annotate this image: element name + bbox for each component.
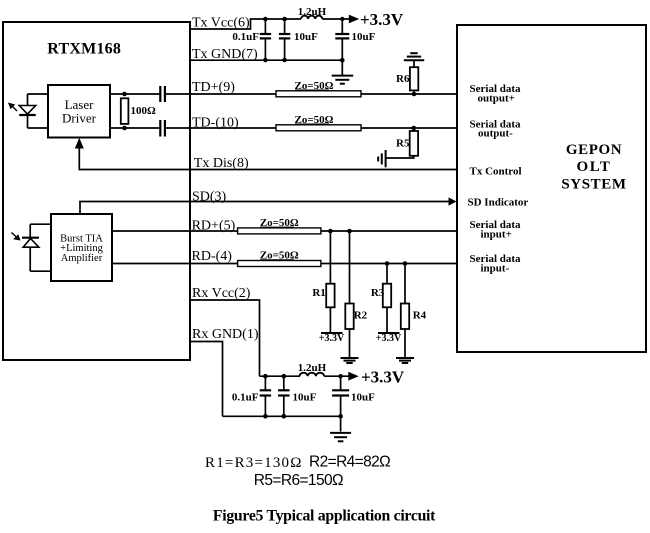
wire Tx Dis [79, 146, 457, 170]
arrow +3.3V top [349, 15, 359, 24]
label GEPON OLT SYSTEM [561, 142, 626, 193]
svg-text:input-: input- [481, 263, 510, 275]
svg-text:0.1uF: 0.1uF [232, 31, 259, 43]
transmission line Zo=50 RD- [238, 261, 321, 267]
transmission line Zo=50 TD- [276, 125, 361, 131]
label 10uF C6 [351, 392, 375, 404]
label R5 [396, 138, 410, 150]
svg-text:SYSTEM: SYSTEM [561, 177, 626, 193]
svg-text:Figure5 Typical application ci: Figure5 Typical application circuit [213, 508, 436, 525]
pin Rx GND(1) [192, 327, 259, 342]
pin Tx Dis(8) [194, 156, 249, 171]
capacitor C4 0.1uF [260, 374, 271, 419]
caption Figure5 [213, 508, 436, 525]
wire to +3.3V node bottom [324, 374, 349, 378]
pin Tx GND(7) [192, 47, 258, 62]
svg-text:Driver: Driver [62, 111, 97, 126]
photodiode D2 symbol [22, 238, 39, 248]
label 1.2uH bottom [298, 362, 327, 374]
svg-text:10uF: 10uF [294, 31, 318, 43]
block U2 Laser Driver [48, 85, 110, 138]
label Zo=50 TD+ [295, 80, 334, 92]
svg-text:10uF: 10uF [351, 392, 375, 404]
svg-text:OLT: OLT [576, 159, 611, 175]
label RTXM168 [47, 41, 121, 58]
wire TD+ from laser driver [110, 93, 160, 95]
svg-text:0.1uF: 0.1uF [232, 392, 259, 404]
wire RD- to GEPON [321, 261, 457, 266]
svg-text:RTXM168: RTXM168 [47, 41, 121, 58]
ground above R6 (flipped) [404, 53, 424, 60]
svg-text:R1=R3=130Ω: R1=R3=130Ω [205, 455, 303, 471]
label TD-(10) [192, 116, 239, 131]
wire RD- from TIA [112, 263, 238, 265]
wire Tx GND [190, 59, 342, 61]
wire bottom filter top rail [260, 375, 301, 377]
ground G2 bottom filter [330, 433, 351, 441]
label R2 [354, 310, 368, 322]
resistor R4 [401, 264, 409, 358]
pin RD-(4) [192, 249, 233, 264]
capacitor C1 0.1uF [260, 17, 271, 63]
svg-text:R3: R3 [371, 287, 385, 299]
resistor R5 [386, 128, 418, 158]
label TD+(9) [192, 80, 235, 95]
svg-text:R6: R6 [396, 73, 410, 85]
light arrow at D2 [12, 233, 21, 241]
svg-text:+3.3V: +3.3V [319, 333, 345, 344]
svg-text:Amplifier: Amplifier [61, 253, 103, 264]
label R1 [312, 287, 325, 299]
label +3.3V bottom [361, 368, 405, 387]
resistor R3 [378, 264, 400, 334]
pin RD+(5) [192, 218, 236, 233]
IC U1 RTXM168 box [3, 22, 190, 360]
GEPON pin label serial data output- [470, 118, 522, 139]
label 100ohm [131, 105, 157, 117]
capacitor series C_td- [160, 120, 165, 137]
photodiode D1 (laser) wiring [28, 94, 49, 128]
resistor R6 [410, 61, 418, 95]
GEPON pin label serial data input- [470, 253, 522, 275]
transmission line Zo=50 RD+ [238, 228, 321, 234]
wire TD- from laser driver [110, 127, 160, 129]
svg-text:R1: R1 [312, 287, 325, 299]
wire RD+ from TIA [112, 230, 238, 232]
svg-text:R2=R4=82Ω: R2=R4=82Ω [309, 454, 390, 471]
svg-text:R5: R5 [396, 138, 410, 150]
formula line 2 [254, 472, 343, 489]
resistor R1 [321, 231, 343, 333]
svg-text:Rx GND(1): Rx GND(1) [192, 327, 259, 342]
ground at R4 [396, 358, 414, 363]
formula line 1 [205, 454, 390, 472]
wire TD- to GEPON [361, 126, 457, 131]
light arrow at D1 [8, 103, 17, 112]
wire Rx Vcc [190, 300, 260, 376]
label 10uF C5 [293, 392, 317, 404]
label 10uF C2 [294, 31, 318, 43]
label +3.3V at R3 [376, 333, 402, 344]
svg-text:1.2uH: 1.2uH [298, 362, 327, 374]
pin Rx Vcc(2) [192, 286, 251, 301]
GEPON pin label serial data input+ [470, 219, 522, 241]
label 10uF C3 [352, 31, 376, 43]
label 1.2uH top [298, 6, 327, 18]
capacitor C5 10uF [278, 374, 289, 419]
label Zo=50 RD+ [260, 217, 299, 229]
arrow SD indicator [449, 197, 457, 205]
svg-text:+3.3V: +3.3V [376, 333, 402, 344]
svg-text:100Ω: 100Ω [131, 105, 157, 117]
block U4 Burst TIA + Limiting Amplifier [51, 214, 112, 281]
svg-text:output-: output- [478, 127, 513, 139]
IC U3 GEPON OLT SYSTEM box [457, 25, 646, 352]
wire RD+ to GEPON [321, 229, 457, 234]
svg-text:R2: R2 [354, 310, 368, 322]
svg-text:R4: R4 [413, 310, 427, 322]
capacitor C2 10uF [279, 17, 290, 63]
arrow into laser driver [75, 138, 84, 149]
ground G1 top filter [332, 76, 354, 84]
label +3.3V at R1 [319, 333, 345, 344]
svg-text:RD-(4): RD-(4) [192, 249, 233, 264]
photodiode D1 symbol [19, 106, 36, 116]
transmission line Zo=50 TD+ [276, 91, 361, 97]
inductor L1 1.2uH [301, 16, 322, 19]
svg-text:SD Indicator: SD Indicator [468, 197, 529, 209]
svg-text:TD-(10): TD-(10) [192, 116, 239, 131]
label 0.1uF bottom [232, 392, 259, 404]
svg-text:10uF: 10uF [352, 31, 376, 43]
capacitor series C_td+ [160, 86, 165, 102]
pin Tx Vcc(6) [192, 16, 250, 31]
svg-text:Tx Control: Tx Control [470, 166, 522, 178]
svg-text:TD+(9): TD+(9) [192, 80, 235, 95]
wire TD+ to GEPON [361, 92, 457, 97]
wire TD+ to Zo block [166, 93, 276, 95]
capacitor C3 10uF [335, 19, 349, 75]
wire to +3.3V node [322, 17, 350, 21]
inductor L2 1.2uH [300, 373, 325, 376]
label Zo=50 RD- [260, 249, 299, 261]
svg-text:input+: input+ [481, 229, 512, 241]
svg-text:Rx Vcc(2): Rx Vcc(2) [192, 286, 251, 301]
svg-text:GEPON: GEPON [566, 142, 622, 158]
label R3 [371, 287, 385, 299]
ground at R2 [341, 358, 359, 363]
wire Rx GND [190, 342, 223, 417]
wire SD [80, 202, 449, 215]
arrow +3.3V bottom [348, 372, 358, 381]
wire TD- to Zo block [166, 127, 276, 129]
svg-text:R5=R6=150Ω: R5=R6=150Ω [254, 472, 343, 489]
resistor 100 ohm [121, 92, 129, 131]
label Zo=50 TD- [295, 114, 334, 126]
GEPON pin label SD Indicator [468, 197, 529, 209]
svg-text:1.2uH: 1.2uH [298, 6, 327, 18]
wire Tx Vcc [190, 19, 301, 29]
resistor R2 [345, 231, 353, 358]
label +3.3V top [360, 10, 404, 29]
capacitor C6 10uF [332, 376, 349, 431]
GEPON pin label serial data output+ [470, 83, 522, 104]
svg-text:+3.3V: +3.3V [360, 10, 404, 29]
photodiode D2 (receiver) wiring [30, 224, 51, 271]
wire bottom filter bottom rail [223, 415, 341, 417]
label R6 [396, 73, 410, 85]
GEPON pin label Tx Control [470, 166, 522, 178]
label R4 [413, 310, 427, 322]
pin SD(3) [192, 189, 227, 204]
svg-text:output+: output+ [478, 92, 515, 104]
svg-text:+3.3V: +3.3V [361, 368, 405, 387]
label 0.1uF top [232, 31, 259, 43]
svg-text:Laser: Laser [65, 97, 95, 112]
ground at R5 (sideways) [378, 150, 385, 167]
svg-text:10uF: 10uF [293, 392, 317, 404]
